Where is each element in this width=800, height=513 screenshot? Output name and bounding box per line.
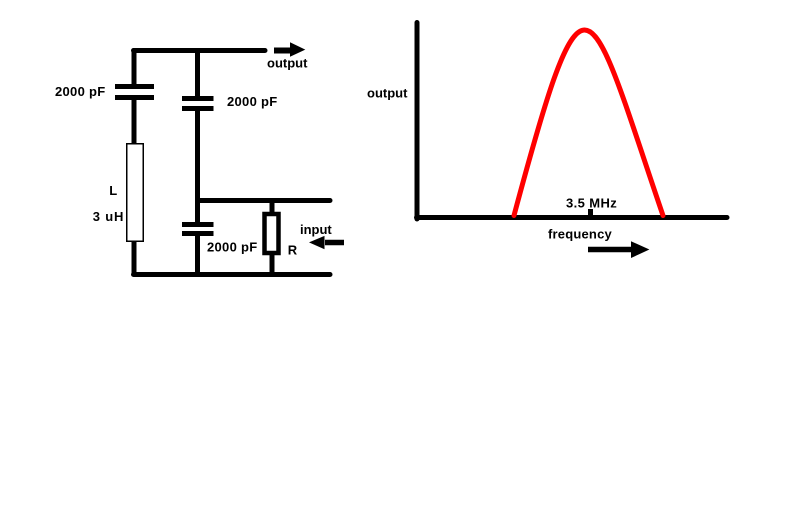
frequency arrow	[588, 241, 649, 258]
svg-text:L: L	[109, 183, 117, 198]
inductor L	[127, 144, 144, 242]
svg-text:R: R	[288, 242, 298, 257]
svg-text:2000 pF: 2000 pF	[55, 84, 106, 99]
y-axis	[415, 23, 420, 220]
wire C1 to L	[132, 100, 137, 143]
svg-text:3 uH: 3 uH	[93, 209, 124, 224]
svg-text:2000 pF: 2000 pF	[207, 239, 258, 254]
resistor R	[265, 214, 279, 253]
capacitor C1 2000 pF	[115, 84, 154, 100]
capacitor C2 2000 pF	[182, 96, 214, 111]
wire L to bottom	[132, 242, 137, 275]
wire branch2 vertical (top to C2)	[195, 51, 200, 97]
wire bottom horizontal	[134, 272, 331, 277]
svg-text:2000 pF: 2000 pF	[227, 94, 278, 109]
wire R bottom	[270, 253, 275, 275]
wire middle horizontal	[198, 198, 331, 203]
wire C2 to C3	[195, 111, 200, 222]
svg-text:input: input	[300, 222, 332, 237]
svg-text:output: output	[267, 56, 308, 71]
svg-text:frequency: frequency	[548, 227, 613, 242]
tick 3.5 MHz	[588, 209, 593, 216]
response curve (red)	[514, 30, 663, 216]
wire C3 to bottom	[195, 236, 200, 275]
output arrow	[274, 42, 305, 56]
capacitor C3 2000 pF	[182, 222, 214, 236]
wire R top	[270, 201, 275, 215]
wire left vertical (top to C1)	[132, 51, 137, 85]
input arrow	[309, 236, 344, 249]
svg-text:3.5 MHz: 3.5 MHz	[566, 196, 617, 211]
wire top horizontal	[134, 48, 266, 53]
x-axis	[417, 215, 728, 220]
svg-text:output: output	[367, 86, 408, 101]
